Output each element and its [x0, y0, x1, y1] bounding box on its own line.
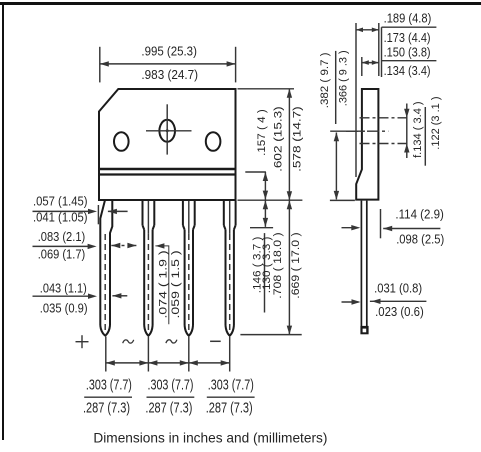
- label .708 ( 18.0 ) rotated: [272, 232, 284, 298]
- pitch arrow pin1-pin2: [106, 360, 149, 365]
- svg-text:.157 ( 4 ): .157 ( 4 ): [256, 109, 268, 156]
- fraction bar #3: [207, 396, 255, 398]
- svg-text:.995 (25.3): .995 (25.3): [141, 44, 197, 59]
- pin 4 tip extension line: [229, 337, 231, 372]
- dim .043 fraction bar with arrow: [33, 294, 98, 299]
- svg-text:.287 (7.3): .287 (7.3): [83, 400, 130, 417]
- page top border rule: [0, 2, 481, 5]
- dim .995/.983 arrow line: [100, 63, 236, 65]
- fraction bar #2: [147, 396, 195, 398]
- side ext line right: [378, 23, 380, 76]
- fraction bar #1: [84, 396, 132, 398]
- front body band line lower: [98, 173, 237, 175]
- dim .114 fraction bar with arrow: [383, 226, 440, 231]
- front body band line upper: [98, 168, 237, 170]
- dim .031 outer arrow: [342, 299, 361, 304]
- lead right extension line: [380, 209, 382, 238]
- side ext line left (bulge): [355, 23, 357, 177]
- dim .382 arrow line: [334, 132, 339, 200]
- dim .031 fraction bar with arrow: [370, 299, 427, 304]
- dim f.134 up arrowhead: [404, 144, 409, 153]
- dim .057 opposing arrow: [108, 209, 128, 214]
- side hole center line: [346, 130, 388, 132]
- svg-text:.122 (3 .1 ): .122 (3 .1 ): [430, 97, 442, 150]
- label .602 (15.3) rotated: [272, 106, 284, 172]
- label .035 (0.9): [40, 301, 88, 316]
- front center hole crosshair vertical: [166, 104, 168, 154]
- svg-text:.287 (7.3): .287 (7.3): [206, 400, 253, 417]
- label .150 (3.8): [384, 44, 431, 59]
- svg-text:.074 ( 1.9 ): .074 ( 1.9 ): [158, 250, 170, 318]
- side hole line upper: [360, 117, 410, 119]
- label .114 (2.9): [395, 206, 444, 221]
- label .134 (3.4): [384, 63, 431, 78]
- label .031 (0.8): [374, 280, 422, 295]
- label .366 ( 9 .3 ) rotated: [337, 50, 349, 106]
- label .578 (14.7) rotated: [291, 106, 303, 172]
- pitch arrow pin2-pin3: [148, 360, 188, 365]
- side hole line lower: [360, 143, 410, 145]
- svg-text:.303 (7.7): .303 (7.7): [148, 377, 194, 394]
- svg-text:.303 (7.7): .303 (7.7): [208, 377, 254, 394]
- dim .995/.983 right extension line: [235, 47, 237, 83]
- dim .043 opposing arrow: [112, 293, 127, 298]
- pin 1 (+ lead): [100, 201, 112, 336]
- pin 4 (− lead): [224, 201, 236, 336]
- svg-text:.043 (1.1): .043 (1.1): [40, 281, 87, 296]
- label .303 (7.7) #2: [148, 377, 194, 394]
- svg-text:.602 (15.3): .602 (15.3): [272, 106, 284, 172]
- dim .189/.173 arrow: [356, 28, 379, 33]
- front center hole center dot: [166, 129, 169, 132]
- dim f.134 down arrowhead: [404, 109, 409, 118]
- svg-text:.069 (1.7): .069 (1.7): [38, 247, 85, 262]
- svg-text:.098 (2.5): .098 (2.5): [396, 232, 444, 247]
- caption text: [93, 429, 327, 445]
- dim .995/.983 left arrowhead: [100, 61, 109, 66]
- svg-text:.150 (3.8): .150 (3.8): [384, 44, 431, 59]
- dim .083 fraction bar with arrow: [33, 244, 97, 249]
- svg-text:.031 (0.8): .031 (0.8): [374, 280, 422, 295]
- label .057 (1.45): [33, 194, 88, 209]
- label f.134 ( 3.4 ) rotated: [412, 101, 424, 158]
- label .146 ( 3.7 ) rotated: [252, 237, 264, 294]
- label .074 ( 1.9 ) rotated: [158, 250, 170, 318]
- dim .146/.130 fraction bar: [264, 233, 266, 312]
- dim .995/.983 left extension line: [99, 47, 101, 83]
- front view body outline: [99, 89, 236, 200]
- svg-text:.023 (0.6): .023 (0.6): [375, 304, 424, 319]
- page left border rule: [2, 2, 4, 440]
- dim .995/.983 right arrowhead: [227, 61, 236, 66]
- pin tip extension line: [240, 334, 301, 336]
- tilde symbol 1: [123, 340, 134, 343]
- front right mounting hole: [206, 132, 221, 151]
- svg-text:f.134 ( 3.4 ): f.134 ( 3.4 ): [412, 101, 424, 158]
- label .303 (7.7) #1: [86, 377, 132, 394]
- svg-text:.983 (24.7): .983 (24.7): [141, 67, 198, 82]
- dim .146/.130 arrow line: [263, 200, 268, 227]
- label .995 (25.3): [141, 44, 197, 59]
- label .287 (7.3) #2: [145, 400, 192, 417]
- front center hole crosshair horizontal: [146, 130, 192, 132]
- label .130 ( 3.3 ) rotated: [261, 237, 273, 294]
- label .669 ( 17.0 ) rotated: [290, 232, 302, 298]
- pitch arrow pin3-pin4: [189, 360, 230, 365]
- band extension line: [245, 171, 266, 173]
- fraction line under .189: [382, 26, 437, 28]
- svg-text:.173 (4.4): .173 (4.4): [384, 30, 431, 45]
- plus symbol: [76, 335, 89, 348]
- hole center reference line: [330, 130, 365, 132]
- dim .708/.669 arrow line: [287, 200, 292, 334]
- label .189 (4.8): [384, 11, 432, 26]
- svg-text:.303 (7.7): .303 (7.7): [86, 377, 132, 394]
- body top extension line: [238, 88, 295, 90]
- label .303 (7.7) #3: [208, 377, 254, 394]
- label .287 (7.3) #1: [83, 400, 130, 417]
- dim .382/.366 fraction bar: [335, 51, 337, 124]
- svg-text:.083 (2.1): .083 (2.1): [38, 229, 85, 244]
- svg-text:Dimensions in inches and (mill: Dimensions in inches and (millimeters): [93, 429, 327, 445]
- pin 1 tip extension line: [105, 337, 107, 372]
- pin 3 tip extension line: [188, 337, 190, 372]
- dim .150/.134 arrow: [362, 60, 379, 65]
- label .983 (24.7): [141, 67, 198, 82]
- dim .157 arrow line: [263, 172, 268, 200]
- svg-text:.366 ( 9 .3 ): .366 ( 9 .3 ): [337, 50, 349, 106]
- svg-text:.578 (14.7): .578 (14.7): [291, 106, 303, 172]
- dim gap dashes (pin1-pin2): [122, 245, 125, 247]
- svg-text:.382 ( 9.7 ): .382 ( 9.7 ): [319, 52, 331, 108]
- svg-text:.114 (2.9): .114 (2.9): [395, 206, 444, 221]
- front center hole: [159, 120, 175, 142]
- label .122 (3 .1 ) rotated: [430, 97, 442, 150]
- dim gap arrow right (pin1-pin2): [127, 243, 136, 248]
- fraction stack left bar: [381, 27, 383, 77]
- dim f.134/.122 fraction bar: [424, 107, 426, 166]
- fraction line under .150: [382, 60, 437, 62]
- svg-text:.059 ( 1.5 ): .059 ( 1.5 ): [170, 250, 182, 318]
- label .043 (1.1): [40, 281, 87, 296]
- side view body outline: [356, 89, 378, 200]
- label .382 ( 9.7 ) rotated: [319, 52, 331, 108]
- svg-text:.287 (7.3): .287 (7.3): [145, 400, 192, 417]
- dim f.134/.122 shaft: [406, 104, 408, 159]
- svg-text:.708 ( 18.0 ): .708 ( 18.0 ): [272, 232, 284, 298]
- label .041 (1.05): [33, 210, 88, 225]
- pin 2 (~ lead): [143, 201, 155, 336]
- dim .057 fraction bar with arrow: [33, 209, 98, 214]
- side view lead with crimp tip: [360, 201, 368, 335]
- label .173 (4.4): [384, 30, 431, 45]
- pin shoulder extension line: [250, 227, 273, 229]
- label .098 (2.5): [396, 232, 444, 247]
- pin 3 (~ lead): [183, 201, 195, 336]
- side ext line middle: [361, 57, 363, 76]
- svg-text:.041 (1.05): .041 (1.05): [33, 210, 88, 225]
- label .059 ( 1.5 ) rotated: [170, 250, 182, 318]
- body bottom extension line: [238, 199, 303, 201]
- label .287 (7.3) #3: [206, 400, 253, 417]
- svg-text:.134 (3.4): .134 (3.4): [384, 63, 431, 78]
- pin 2 tip extension line: [147, 337, 149, 372]
- tilde symbol 2: [166, 340, 177, 343]
- dim .114 outer arrow: [342, 225, 361, 230]
- svg-text:.057 (1.45): .057 (1.45): [33, 194, 88, 209]
- front left mounting hole: [114, 132, 129, 151]
- dim .602/.578 arrow line: [287, 89, 292, 200]
- label .157 ( 4 ) rotated: [256, 109, 268, 156]
- svg-text:.669 ( 17.0 ): .669 ( 17.0 ): [290, 232, 302, 298]
- dim .074 leader arrow: [155, 243, 168, 324]
- svg-text:.189 (4.8): .189 (4.8): [384, 11, 432, 26]
- label .069 (1.7): [38, 247, 85, 262]
- label .083 (2.1): [38, 229, 85, 244]
- svg-text:.035 (0.9): .035 (0.9): [40, 301, 88, 316]
- pin1 left extension line: [97, 205, 99, 224]
- label .023 (0.6): [375, 304, 424, 319]
- side body bottom extension line: [330, 199, 355, 201]
- dim gap arrow left (pin1-pin2): [111, 243, 120, 248]
- minus symbol: [210, 340, 221, 342]
